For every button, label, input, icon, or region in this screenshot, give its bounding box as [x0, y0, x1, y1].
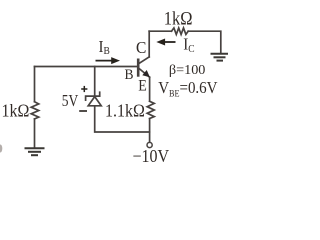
ground left: [26, 148, 44, 155]
resistor RE 1.1kΩ zigzag: [147, 101, 154, 118]
edge smudge artifact: [0, 145, 2, 153]
svg-text:1kΩ: 1kΩ: [2, 100, 30, 120]
label minus: [79, 110, 87, 112]
svg-text:β=100: β=100: [169, 63, 206, 78]
wire left branch bottom: [34, 119, 36, 148]
transistor Q1 collector slant: [139, 57, 149, 64]
zener diode D1 cathode bar: [86, 92, 100, 100]
wire base horizontal: [35, 66, 138, 68]
transistor Q1 base bar: [137, 60, 140, 76]
label plus: [81, 86, 87, 92]
svg-text:B: B: [125, 66, 134, 83]
resistor RB 1kΩ left zigzag: [31, 102, 39, 119]
node -10V terminal circle: [147, 142, 152, 147]
wire emitter branch bottom: [149, 119, 151, 142]
svg-text:1kΩ: 1kΩ: [164, 8, 193, 29]
transistor Q1 emitter slant: [139, 68, 150, 77]
svg-text:IB: IB: [99, 38, 111, 57]
svg-text:IC: IC: [183, 36, 195, 55]
svg-text:E: E: [138, 78, 147, 95]
svg-text:1.1kΩ: 1.1kΩ: [105, 100, 145, 120]
current arrow IC: [156, 39, 175, 46]
svg-text:C: C: [136, 37, 146, 57]
wire zener branch bottom: [95, 106, 150, 132]
svg-text:VBE=0.6V: VBE=0.6V: [158, 79, 218, 98]
zener diode D1 triangle: [88, 97, 101, 106]
current arrow IB: [96, 57, 121, 64]
svg-text:−10V: −10V: [133, 146, 170, 166]
wire zener branch top: [94, 67, 96, 96]
wire collector vertical: [148, 31, 150, 57]
wire emitter vertical: [149, 77, 151, 101]
ground right: [212, 54, 228, 61]
wire left branch top: [34, 67, 36, 102]
wire resistor to right corner: [188, 31, 221, 53]
transistor Q1 emitter arrowhead: [142, 70, 150, 77]
wire top to resistor: [149, 30, 171, 32]
svg-text:5V: 5V: [62, 91, 78, 110]
resistor RC 1kΩ top zigzag: [172, 28, 189, 35]
